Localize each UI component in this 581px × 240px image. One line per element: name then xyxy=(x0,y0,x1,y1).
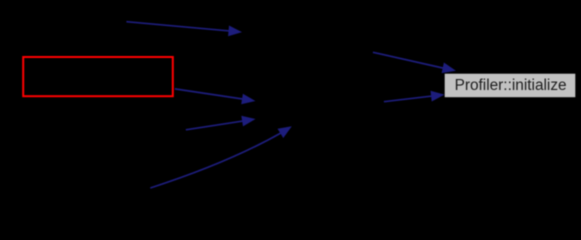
svg-text:Profiler::initialize: Profiler::initialize xyxy=(455,77,567,94)
